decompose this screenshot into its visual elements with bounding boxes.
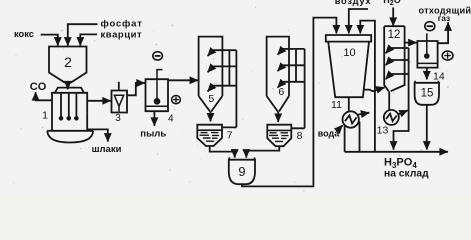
svg-text:на склад: на склад [384, 169, 429, 180]
svg-text:8: 8 [297, 130, 303, 142]
svg-text:1: 1 [42, 110, 48, 122]
svg-text:H2O: H2O [383, 0, 400, 7]
svg-text:пыль: пыль [140, 128, 166, 139]
svg-text:11: 11 [331, 99, 342, 111]
svg-text:14: 14 [433, 70, 445, 82]
svg-text:12: 12 [388, 29, 401, 41]
svg-text:кокс: кокс [14, 29, 34, 39]
svg-text:фосфат: фосфат [101, 19, 143, 30]
svg-text:15: 15 [421, 87, 434, 99]
svg-text:4: 4 [168, 114, 174, 125]
svg-text:кварцит: кварцит [101, 29, 143, 40]
svg-text:газ: газ [438, 13, 450, 23]
svg-text:6: 6 [278, 86, 284, 98]
svg-text:10: 10 [343, 47, 355, 59]
svg-text:13: 13 [377, 125, 389, 137]
svg-text:2: 2 [64, 54, 72, 70]
svg-text:7: 7 [227, 130, 233, 142]
svg-text:шлаки: шлаки [92, 144, 122, 155]
svg-text:воздух: воздух [335, 0, 372, 6]
svg-text:вода: вода [318, 129, 341, 139]
svg-text:CO: CO [30, 81, 47, 93]
svg-text:5: 5 [208, 93, 214, 105]
svg-text:3: 3 [115, 113, 121, 124]
svg-text:9: 9 [238, 164, 245, 179]
